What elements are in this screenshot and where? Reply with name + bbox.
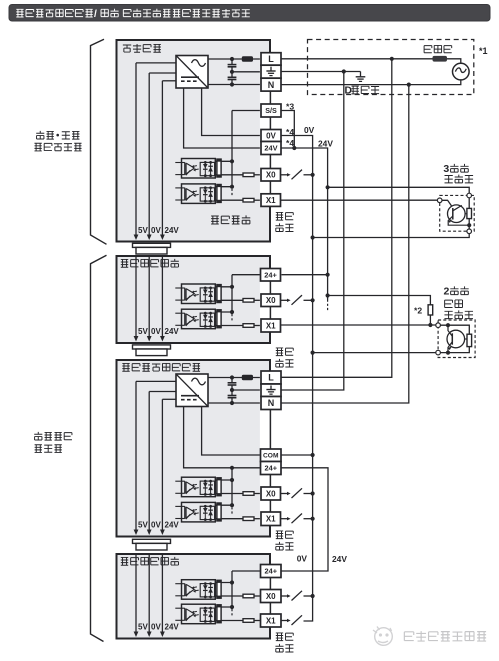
left bracket: sink/source common type — [91, 39, 107, 244]
24V feed wire to bleeder resistor — [328, 296, 431, 305]
module2 X1 opto input circuit — [175, 604, 261, 624]
2-wire sensor transistor Q2 — [447, 330, 465, 348]
junction sensor emitter/load — [467, 223, 471, 227]
svg-text:5V: 5V — [138, 226, 148, 235]
Q2 emitter — [448, 342, 452, 353]
terminal X0 (base unit) — [261, 169, 281, 182]
terminal ground (base unit) — [261, 65, 281, 78]
svg-text:X0: X0 — [266, 592, 276, 601]
junction COM on 0V line — [311, 453, 315, 457]
terminal N (io-unit) — [261, 397, 281, 410]
module1 X1 opto input circuit — [175, 309, 261, 329]
junction sensor return on 0V line — [311, 235, 315, 239]
io-unit terminal chain wire — [269, 372, 271, 526]
junction gnd/cap — [230, 388, 234, 392]
block title input expansion module 2 — [121, 557, 179, 565]
svg-text:L: L — [268, 373, 274, 383]
module1 terminal strip — [260, 268, 282, 333]
S/S line continuation (dashed) — [231, 189, 233, 197]
junction io-unit 24+ to X0 opto — [230, 478, 234, 482]
power circuit dashed boundary — [308, 40, 474, 95]
block title I/O expansion unit — [122, 363, 200, 371]
svg-text:S/S: S/S — [265, 106, 277, 115]
block: base unit (基本单元) — [117, 40, 271, 242]
3-wire sensor base wire — [442, 200, 453, 207]
Q2 collector — [448, 325, 452, 336]
module1 0V bus wire — [147, 257, 152, 342]
24V service line dashed break — [327, 300, 329, 312]
junction L feed — [390, 57, 394, 61]
svg-text:24V: 24V — [165, 327, 180, 336]
label sink input dedicated line2 — [35, 445, 62, 453]
svg-text:N: N — [268, 80, 275, 90]
junction io-unit 24+ to X1 opto — [230, 503, 234, 507]
terminal X0 (io-unit) — [261, 487, 281, 500]
module2 0V bus wire — [147, 555, 152, 637]
wire fuse to AC source — [447, 59, 461, 64]
3-wire sensor signal connector — [437, 198, 442, 203]
junction L/cap — [230, 57, 234, 61]
junction X1 switch on 0V line (io) — [311, 517, 315, 521]
terminal X0 (module1) — [261, 294, 281, 307]
svg-text:24+: 24+ — [264, 464, 277, 473]
terminal X1 (base unit) — [261, 194, 281, 207]
PSU internal wire to lower terminal B — [202, 407, 232, 456]
filter capacitor chain vertical wire — [231, 378, 233, 404]
X1 signal wire (base unit to sensor) — [280, 199, 437, 201]
module2 24V bus wire — [160, 555, 165, 637]
label sink/source input common type line1 — [36, 131, 79, 139]
module1 terminal chain wire — [269, 269, 271, 331]
terminal X1 (module1) — [261, 319, 281, 332]
2-wire sensor bottom connector — [436, 350, 441, 355]
protective earth line (io-unit to D-class ground) — [281, 72, 344, 391]
AC source symbol — [453, 63, 470, 80]
module1 5V bus wire — [134, 257, 139, 342]
3-wire sensor boundary (dashed) — [440, 195, 475, 231]
24V feed wire to 3-wire sensor — [328, 187, 470, 193]
junction earth line — [342, 69, 346, 73]
svg-text:24V: 24V — [165, 521, 180, 530]
svg-text:0V: 0V — [151, 226, 161, 235]
junction N feed — [407, 83, 411, 87]
title bar — [9, 5, 490, 22]
label input terminals (io-unit) — [275, 531, 293, 550]
io-unit 24+ internal vertical wire — [231, 468, 233, 505]
terminal 24+ (module2) — [261, 565, 282, 578]
svg-text:/: / — [94, 9, 97, 20]
base unit terminal strip — [260, 53, 282, 207]
junction bleeder feed — [326, 293, 330, 297]
3-wire sensor bottom connector — [467, 229, 472, 234]
junction module1 24+ to X0 opto — [230, 285, 234, 289]
label input impedance — [211, 215, 250, 224]
label input terminals (base unit) — [275, 212, 293, 231]
base unit X1 opto input circuit — [175, 184, 261, 204]
svg-text:24V: 24V — [264, 144, 277, 153]
junction X0 switch on 0V line (base) — [311, 173, 315, 177]
junction bleeder on X1 wire — [428, 323, 432, 327]
junction 2wire return on 0V line — [311, 351, 315, 355]
label 2-wire sensor line1 — [444, 286, 469, 298]
2-wire sensor bottom internal wire — [440, 347, 469, 353]
svg-text:24+: 24+ — [264, 270, 277, 279]
power supply unit (base unit AC/DC converter) — [176, 56, 208, 89]
svg-text:X1: X1 — [266, 321, 276, 330]
svg-text:24+: 24+ — [264, 567, 277, 576]
svg-text:3: 3 — [443, 163, 449, 175]
block title input expansion module 1 — [121, 259, 179, 267]
block: input expansion module 1 — [117, 256, 271, 343]
fuse F1 — [433, 56, 448, 62]
3-wire sensor top connector — [467, 193, 472, 198]
svg-text:0V: 0V — [304, 125, 315, 135]
watermark logo — [373, 627, 392, 646]
COM wire to 0V line — [281, 454, 313, 456]
wire to 0V terminal — [232, 135, 261, 137]
base unit S/S internal wire — [232, 111, 261, 187]
module1 24+ continuation (dashed) — [231, 314, 233, 322]
power supply unit (I/O expansion AC/DC converter) — [176, 374, 208, 407]
base unit 5V bus wire — [134, 63, 176, 240]
junction 2wire top — [446, 323, 450, 327]
filter capacitor chain vertical wire — [231, 59, 233, 85]
PSU internal wire to lower terminal A — [184, 407, 232, 468]
block: I/O expansion unit — [117, 360, 271, 537]
title text — [16, 9, 250, 20]
X1 signal wire (module1 to sensor) — [280, 324, 435, 326]
input switch X0 (module1) — [281, 295, 314, 305]
svg-text:X1: X1 — [266, 196, 276, 205]
junction module1 24+ to X1 opto — [230, 310, 234, 314]
2-wire sensor top connector — [436, 323, 441, 328]
label 2-wire sensor line2 — [445, 300, 463, 308]
terminal L (io-unit) — [261, 371, 281, 384]
block title base unit — [123, 44, 161, 52]
label sink input dedicated line1 — [34, 432, 72, 440]
filter capacitor C2 plates — [228, 396, 237, 398]
svg-text:0V: 0V — [266, 131, 276, 140]
Q1 collector tie — [465, 213, 467, 215]
module1 24+ internal wire — [232, 275, 261, 312]
svg-text:24V: 24V — [165, 623, 180, 632]
svg-text:2: 2 — [444, 286, 450, 298]
module1 X0 opto input circuit — [175, 284, 261, 304]
junction module2 24+ to X0 opto — [230, 580, 234, 584]
terminal X0 (module2) — [261, 590, 282, 603]
L feed line (io-unit) — [281, 59, 392, 378]
base unit bus labels 5V 0V 24V — [138, 226, 179, 235]
io-unit X1 opto input circuit — [175, 502, 261, 522]
extension cable connector 2 — [133, 345, 171, 356]
3-wire sensor transistor Q1 — [448, 205, 466, 223]
module2 terminal strip — [260, 564, 282, 628]
wire PSU bottom to N terminal — [208, 84, 261, 86]
label 3-wire sensor line2 — [445, 175, 474, 183]
junction module2 24+ to X1 opto — [230, 605, 234, 609]
io-unit 5V bus wire — [134, 381, 176, 535]
svg-text:0V: 0V — [151, 623, 161, 632]
io-unit X0 opto input circuit — [175, 477, 261, 497]
terminal 24V (base unit) — [261, 142, 281, 155]
svg-text:0V: 0V — [151, 521, 161, 530]
svg-text:D: D — [345, 86, 352, 97]
svg-text:X0: X0 — [266, 489, 276, 498]
svg-text:L: L — [268, 54, 274, 64]
svg-text:COM: COM — [263, 453, 279, 460]
input switch X1 (module2) — [281, 615, 304, 625]
label input terminals (module2) — [275, 633, 293, 652]
terminal S/S (base unit) — [261, 104, 281, 117]
left bracket: sink input dedicated type — [91, 255, 107, 641]
input switch X0 (base unit) — [281, 170, 314, 180]
3-wire sensor load resistor — [467, 208, 472, 218]
bleeder resistor lower stub — [429, 315, 431, 325]
junction gnd/cap — [230, 70, 234, 74]
24V service line upper — [281, 148, 328, 300]
24V service line lower (io-unit 24+ to module2) — [281, 468, 328, 571]
3-wire sensor 0V return wire — [313, 234, 470, 238]
D-class earth symbol — [356, 72, 366, 82]
module2 24+ internal wire — [232, 571, 261, 607]
module2 X0 opto input circuit — [175, 580, 261, 600]
module1 24V bus wire — [160, 257, 165, 342]
terminal 24+ (io-unit) — [261, 462, 282, 475]
label input terminals (module1) — [275, 348, 293, 367]
junction N/cap — [230, 82, 234, 86]
terminal N (base unit) — [261, 78, 281, 91]
module2 bus labels — [138, 623, 179, 632]
svg-text:*2: *2 — [414, 306, 422, 316]
wire ground terminal to capacitor chain — [232, 389, 261, 391]
S/S to 24V jumper wire — [281, 111, 294, 149]
svg-text:0V: 0V — [297, 554, 308, 564]
extension cable connector 3 — [133, 539, 171, 550]
base unit X0 opto input circuit — [175, 159, 261, 179]
module2 24+ continuation (dashed) — [231, 609, 233, 617]
wire to 24+ terminal (io-unit) — [232, 467, 261, 469]
terminal L (base unit) — [261, 53, 281, 65]
PSU internal wire to lower terminal B — [202, 88, 232, 136]
junction X0 switch on 0V line (io) — [311, 491, 315, 495]
label 2-wire sensor line3 — [444, 310, 473, 318]
io-unit 0V bus wire — [147, 392, 176, 536]
base unit terminal chain wire — [269, 53, 271, 206]
Q2 base bar — [451, 333, 453, 344]
3-wire sensor internal supply wire — [468, 198, 470, 229]
junction module1 24+ on 24V line — [326, 273, 330, 277]
svg-text:X1: X1 — [266, 616, 276, 625]
io-unit 24V bus wire — [160, 399, 176, 535]
input switch X0 (io-unit) — [281, 488, 314, 498]
label 3-wire sensor line1 — [443, 163, 468, 175]
base unit 24V bus wire — [160, 81, 176, 240]
wire to COM terminal (io-unit) — [232, 454, 261, 456]
junction S/S line to X1 opto — [230, 185, 234, 189]
io-unit bus labels — [138, 521, 179, 530]
svg-text:0V: 0V — [151, 327, 161, 336]
watermark text — [404, 631, 486, 641]
filter capacitor C1 plates — [228, 65, 237, 67]
wire PSU to noise filter to L terminal — [208, 58, 261, 60]
Q2 collector tie — [465, 338, 467, 340]
base unit 0V bus wire — [147, 73, 176, 240]
svg-text:5V: 5V — [138, 521, 148, 530]
label D-class grounding — [345, 86, 380, 97]
svg-text:*1: *1 — [479, 46, 488, 56]
module2 terminal chain wire — [269, 565, 271, 626]
junction X0 switch on 0V line (mod2) — [311, 594, 315, 598]
io-unit terminal strip — [260, 371, 282, 526]
terminal 24+ (module1) — [261, 269, 281, 282]
svg-text:X0: X0 — [266, 171, 276, 180]
svg-text:X0: X0 — [266, 296, 276, 305]
Q1 emitter — [448, 216, 469, 225]
Q1 collector — [453, 205, 462, 210]
2-wire sensor top internal wire — [440, 325, 469, 334]
terminal ground (io-unit) — [261, 384, 281, 397]
2-wire sensor 0V return wire — [313, 352, 436, 354]
junction L/cap — [230, 375, 234, 379]
junction S/S jumper on 24V wire — [292, 146, 296, 150]
bleeder resistor *2 — [428, 305, 433, 315]
N feed line (io-unit) — [281, 85, 409, 403]
junction 2wire bottom — [446, 351, 450, 355]
wire module1 24+ to 24V service line — [281, 274, 328, 276]
svg-text:X1: X1 — [266, 515, 276, 524]
Q1 base bar — [452, 208, 454, 220]
2-wire sensor load resistor — [467, 334, 472, 346]
wire to 24V terminal — [232, 147, 261, 149]
junction io-unit 24+ wire — [230, 466, 234, 470]
svg-text:24V: 24V — [332, 554, 347, 564]
extension cable connector 1 — [133, 243, 171, 254]
Q1 emitter arrow — [448, 219, 452, 223]
wire AC source to N — [281, 80, 461, 85]
wire PSU to noise filter to L terminal — [208, 377, 261, 379]
junction N/cap — [230, 401, 234, 405]
junction S/S line to X0 opto — [230, 159, 234, 163]
svg-text:*4: *4 — [286, 127, 294, 137]
svg-text:5V: 5V — [138, 327, 148, 336]
label fuse — [424, 45, 452, 52]
terminal X1 (io-unit) — [261, 512, 281, 526]
io-unit 24+ continuation (dashed) — [231, 507, 233, 515]
svg-text:5V: 5V — [138, 623, 148, 632]
PSU internal wire to lower terminal A — [184, 88, 232, 148]
input switch X1 (io-unit) — [281, 514, 314, 524]
terminal COM (io-unit) — [261, 449, 282, 462]
wire ground terminal to earth point — [281, 71, 361, 73]
svg-text:*3: *3 — [286, 102, 294, 112]
junction X0 switch on 0V line (mod1) — [311, 298, 315, 302]
filter capacitor C2 plates — [228, 77, 237, 79]
junction 24V feed — [326, 185, 330, 189]
label sink/source input common type line2 — [34, 143, 81, 151]
block: input expansion module 2 — [117, 554, 271, 639]
terminal X1 (module2) — [261, 614, 282, 627]
Q2 emitter arrow — [448, 346, 452, 350]
svg-text:*4: *4 — [286, 138, 294, 148]
input switch X0 (module2) — [281, 591, 314, 601]
module2 5V bus wire — [134, 555, 139, 637]
wire L terminal to fuse — [281, 58, 433, 60]
svg-text:N: N — [268, 398, 275, 408]
noise filter component on L wire — [242, 375, 253, 380]
module1 bus labels — [138, 327, 179, 336]
noise filter component on L wire — [242, 56, 253, 61]
wire PSU bottom to N terminal — [208, 402, 261, 404]
svg-text:24V: 24V — [165, 226, 180, 235]
2-wire sensor boundary (dashed) — [438, 320, 475, 358]
terminal 0V (base unit) — [261, 130, 281, 142]
filter capacitor C1 plates — [228, 383, 237, 385]
wire ground terminal to capacitor chain — [232, 71, 261, 73]
0V service line — [281, 136, 313, 622]
svg-text:24V: 24V — [318, 139, 333, 149]
